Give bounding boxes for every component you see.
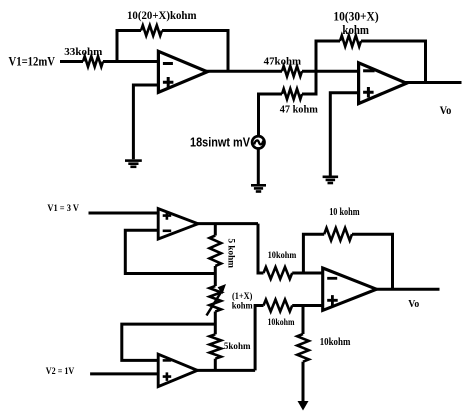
svg-text:5 kohm: 5 kohm (226, 239, 236, 269)
svg-text:(1+X): (1+X) (232, 291, 252, 301)
svg-text:V1=12mV: V1=12mV (9, 54, 56, 68)
svg-text:10kohm: 10kohm (320, 337, 351, 348)
svg-text:33kohm: 33kohm (64, 47, 102, 58)
svg-text:10(20+X)kohm: 10(20+X)kohm (127, 8, 197, 22)
svg-text:47 kohm: 47 kohm (280, 105, 318, 116)
svg-text:Vo: Vo (408, 299, 419, 310)
svg-text:kohm: kohm (232, 301, 253, 311)
svg-text:10kohm: 10kohm (268, 318, 295, 328)
svg-text:5kohm: 5kohm (224, 342, 251, 352)
svg-text:10(30+X): 10(30+X) (333, 10, 378, 24)
svg-text:Vo: Vo (440, 103, 452, 117)
svg-text:kohm: kohm (342, 23, 369, 37)
svg-text:10kohm: 10kohm (268, 251, 297, 261)
svg-text:10 kohm: 10 kohm (329, 207, 360, 218)
svg-text:V2 = 1V: V2 = 1V (46, 367, 75, 377)
svg-text:18sinwt mV: 18sinwt mV (190, 135, 250, 150)
svg-text:V1 = 3 V: V1 = 3 V (47, 204, 79, 214)
svg-text:47kohm: 47kohm (264, 57, 302, 68)
